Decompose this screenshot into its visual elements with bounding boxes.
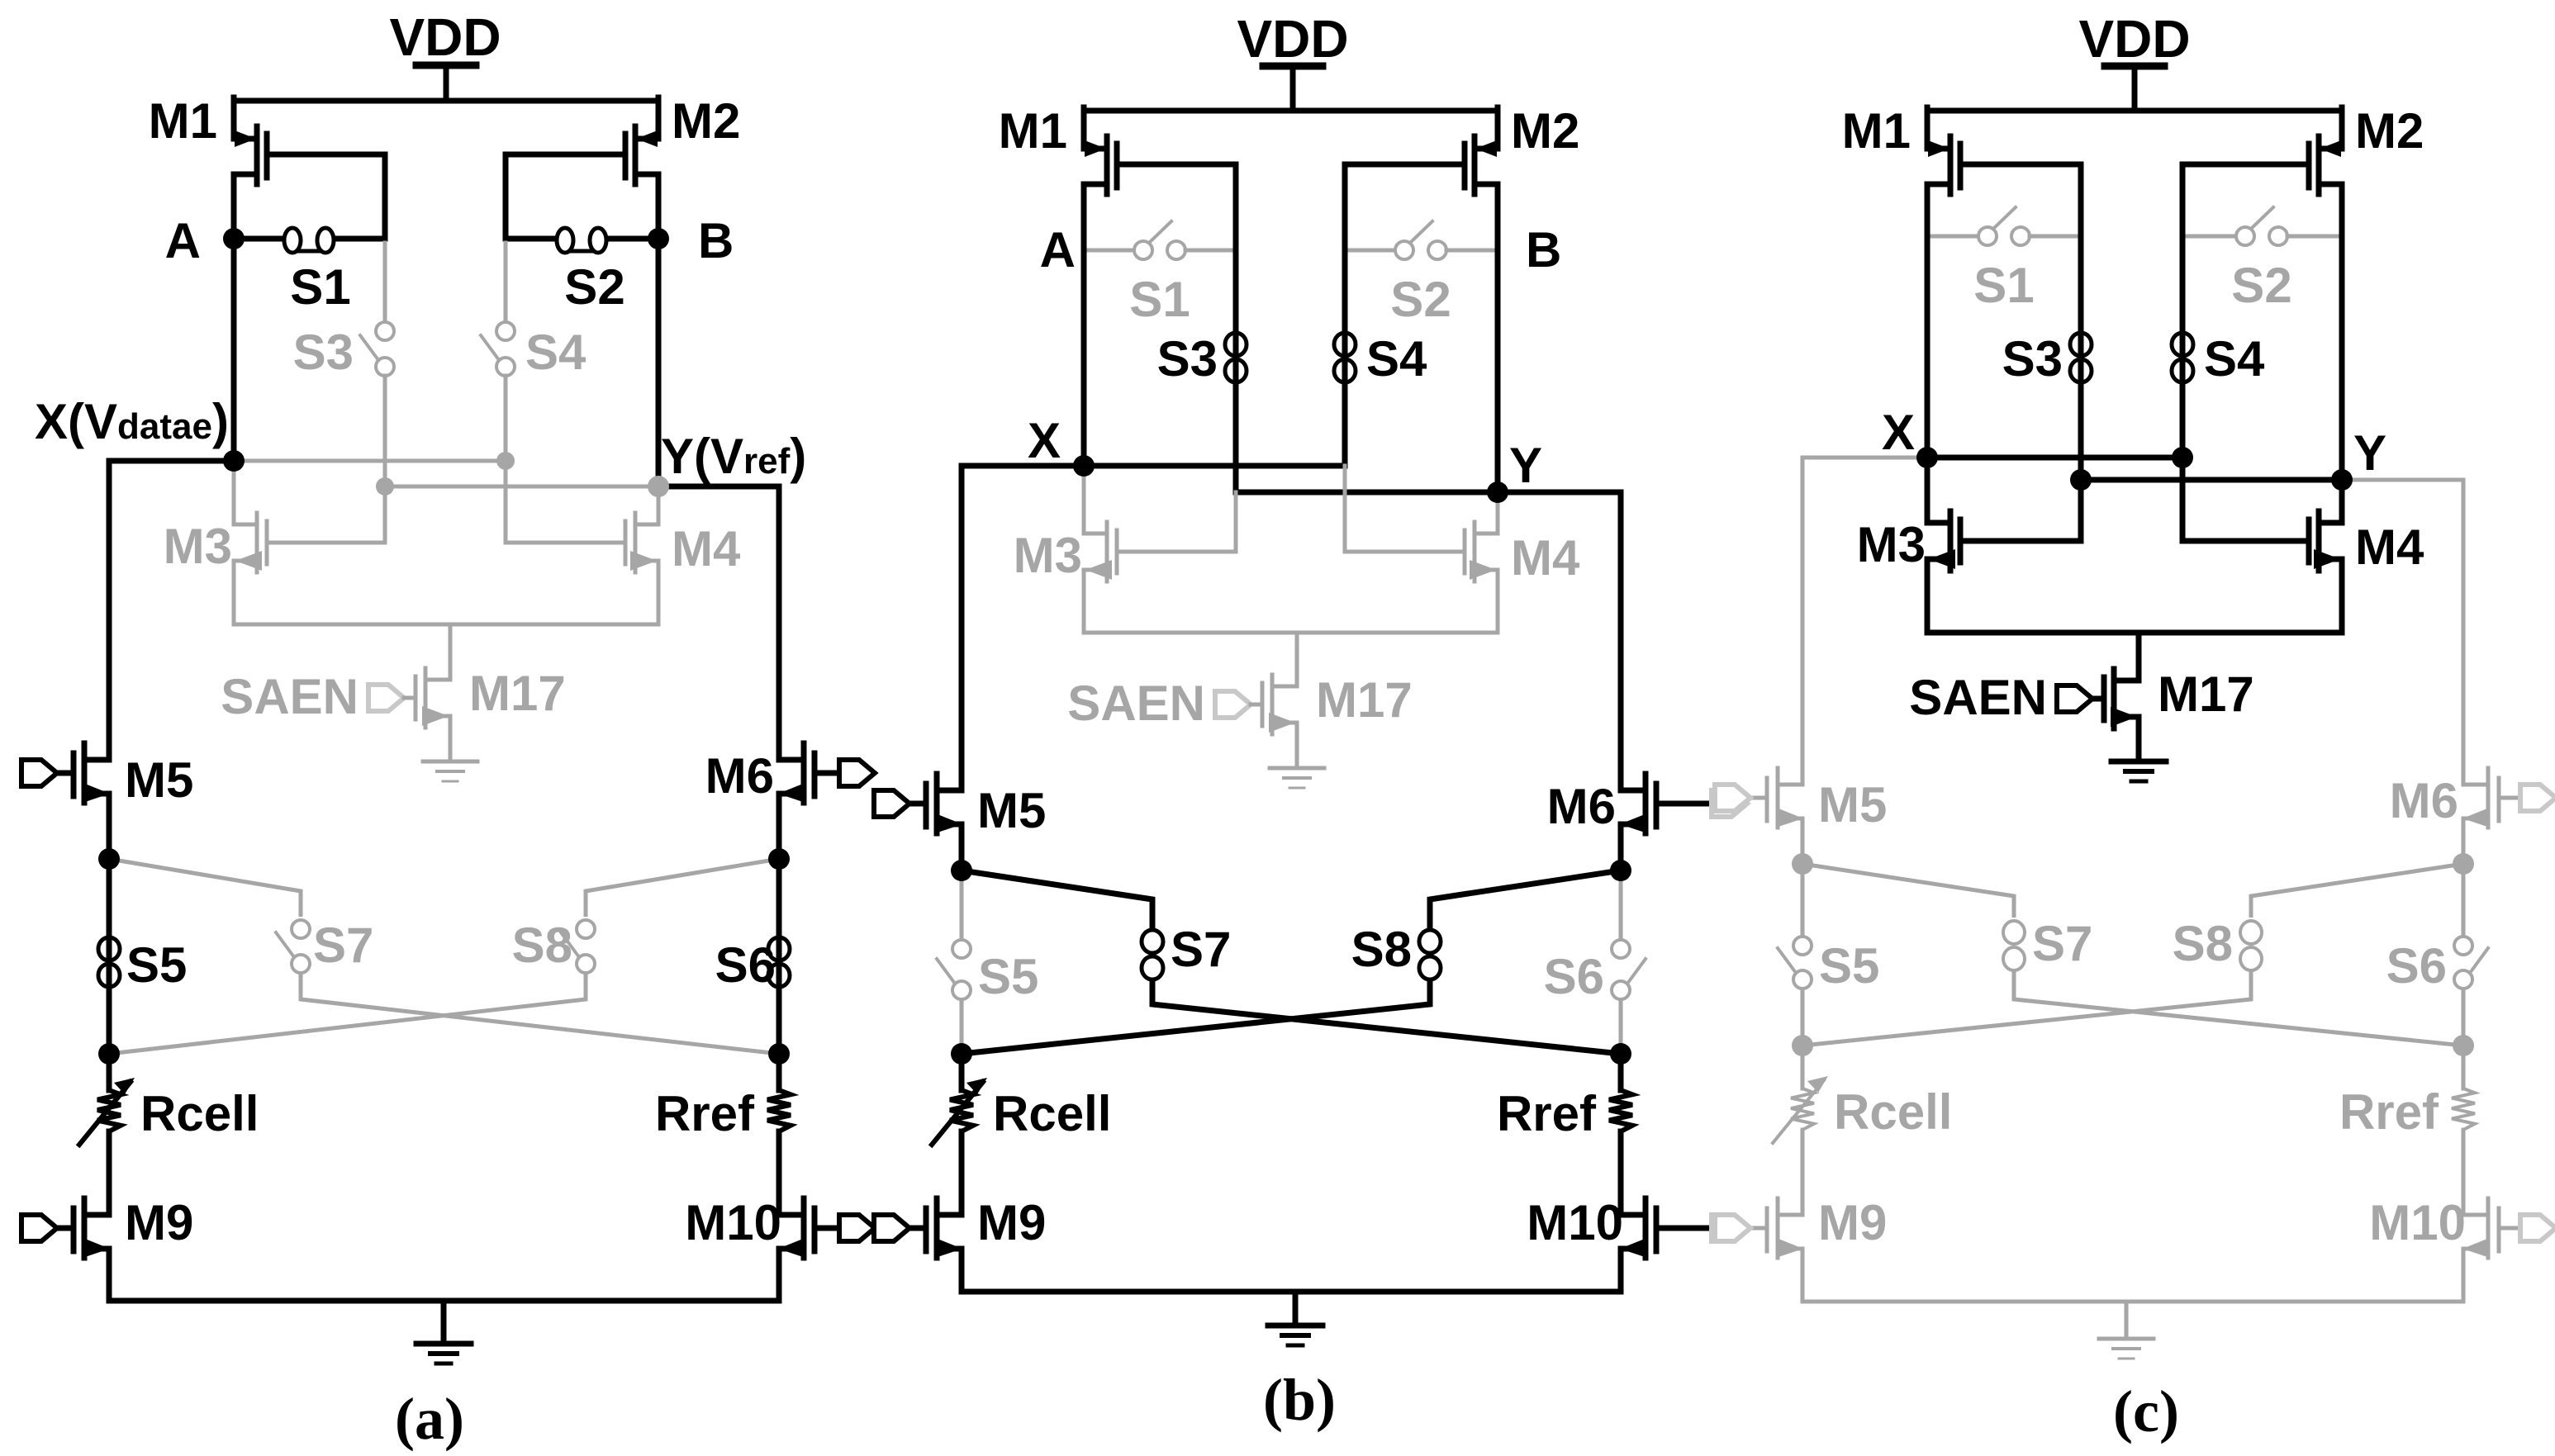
S7 label panel a bbox=[313, 918, 373, 973]
svg-text:M10: M10 bbox=[1527, 1195, 1623, 1250]
wire M6 drain to S6 panel a bbox=[776, 859, 782, 1054]
svg-text:S6: S6 bbox=[1544, 949, 1604, 1004]
wire S4 down panel b bbox=[1342, 250, 1348, 466]
svg-text:M5: M5 bbox=[125, 752, 193, 808]
switch S6 (closed) panel a bbox=[768, 937, 790, 987]
SAEN port panel c bbox=[2057, 685, 2104, 712]
svg-text:Rcell: Rcell bbox=[1834, 1084, 1952, 1140]
wire S4 to node X panel a bbox=[504, 376, 508, 461]
wire node Y right panel a bbox=[658, 486, 779, 760]
svg-text:SAEN: SAEN bbox=[1067, 676, 1205, 731]
M10 label panel b bbox=[1527, 1195, 1623, 1250]
wire node X left panel b bbox=[962, 466, 1084, 790]
SAEN label panel c bbox=[1909, 670, 2047, 725]
M6 label panel c bbox=[2390, 773, 2458, 828]
M3 label panel c bbox=[1857, 517, 1926, 572]
S4 label panel c bbox=[2204, 331, 2265, 387]
resistor Rref panel b bbox=[1609, 1054, 1632, 1215]
svg-text:X: X bbox=[1028, 413, 1061, 468]
wire VDD rail panel c bbox=[1927, 108, 2342, 114]
svg-text:S4: S4 bbox=[525, 325, 587, 380]
wire M4 gate riser panel b bbox=[1343, 466, 1347, 552]
S7 label panel b bbox=[1171, 922, 1231, 977]
wire M3-M4 common rail panel c bbox=[1927, 630, 2342, 636]
svg-text:S3: S3 bbox=[293, 325, 354, 380]
node X panel c bbox=[1916, 447, 1938, 468]
junction left resistor node panel c bbox=[1792, 1035, 1813, 1056]
M2 label panel b bbox=[1511, 103, 1579, 159]
svg-text:Rref: Rref bbox=[2339, 1084, 2439, 1140]
Y label panel c bbox=[2353, 425, 2386, 481]
SAEN port panel a bbox=[368, 685, 416, 711]
svg-text:Y: Y bbox=[2353, 425, 2386, 481]
panel label (c) bbox=[2113, 1378, 2179, 1444]
Rcell label panel a bbox=[140, 1086, 259, 1141]
junction right drain node panel b bbox=[1610, 860, 1631, 881]
node X panel b bbox=[1073, 455, 1095, 477]
S3 label panel b bbox=[1157, 331, 1218, 387]
svg-text:S5: S5 bbox=[1819, 938, 1879, 994]
junction right drain node panel c bbox=[2453, 853, 2474, 875]
transistor M3 panel a bbox=[234, 461, 385, 624]
transistor M2 panel c bbox=[2182, 107, 2342, 236]
S1 label panel b bbox=[1129, 272, 1190, 327]
wire node X right panel a bbox=[234, 459, 506, 463]
svg-text:M4: M4 bbox=[672, 521, 741, 576]
Rcell label panel b bbox=[993, 1086, 1111, 1141]
S8 label panel c bbox=[2173, 916, 2233, 971]
junction left drain node panel c bbox=[1792, 853, 1813, 875]
wire M2 gate to S2 panel b bbox=[1342, 164, 1348, 250]
svg-text:M10: M10 bbox=[2369, 1195, 2466, 1250]
svg-text:M6: M6 bbox=[1547, 779, 1616, 834]
wire M5 drain to S5 panel b bbox=[960, 870, 964, 1054]
junction X to S4 panel c bbox=[2172, 447, 2193, 468]
wire M2 gate to S2 panel a bbox=[503, 154, 509, 239]
M17 label panel a bbox=[469, 666, 566, 721]
transistor M2 panel a bbox=[506, 97, 658, 239]
SAEN label panel a bbox=[221, 669, 359, 724]
M6 gate port panel a bbox=[839, 760, 875, 786]
junction left resistor node panel b bbox=[951, 1043, 972, 1065]
resistor Rcell panel c bbox=[1773, 1046, 1828, 1215]
transistor M9 panel a bbox=[49, 1198, 110, 1301]
svg-text:M3: M3 bbox=[164, 519, 232, 574]
M10 gate port panel a bbox=[839, 1215, 875, 1241]
S2 label panel b bbox=[1390, 272, 1451, 327]
svg-text:S6: S6 bbox=[2386, 938, 2447, 994]
S1 label panel c bbox=[1973, 258, 2034, 313]
wire S2 to S4 panel a bbox=[504, 243, 508, 322]
switch S1 (open) panel c bbox=[1927, 207, 2081, 245]
svg-text:S1: S1 bbox=[1129, 272, 1190, 327]
junction right drain node panel a bbox=[768, 848, 790, 870]
wire node A to node X panel b bbox=[1081, 250, 1087, 466]
svg-text:Rcell: Rcell bbox=[993, 1086, 1111, 1141]
M9 gate port panel b bbox=[874, 1215, 909, 1241]
wire bottom rail panel a bbox=[109, 1298, 779, 1304]
svg-text:S3: S3 bbox=[1157, 331, 1218, 387]
transistor M3 panel b bbox=[1084, 466, 1236, 633]
X(Vdatae) label panel a bbox=[35, 394, 229, 449]
wire node X left panel c bbox=[1802, 458, 1927, 785]
wire node X left panel a bbox=[109, 461, 234, 760]
M10 gate port panel b bbox=[1712, 1215, 1747, 1241]
M5 gate port panel a bbox=[21, 760, 57, 786]
M5 gate port panel c bbox=[1715, 785, 1750, 811]
wire node Y panel a bbox=[385, 485, 658, 489]
svg-text:M17: M17 bbox=[2158, 666, 2254, 722]
wire node Y right panel b bbox=[1498, 492, 1621, 790]
M9 label panel b bbox=[977, 1195, 1046, 1250]
wire M3 gate riser panel c bbox=[2078, 480, 2084, 541]
wire S8 to left branch panel b bbox=[962, 978, 1430, 1054]
wire M4 gate riser panel a bbox=[504, 461, 508, 543]
transistor M5 panel b bbox=[901, 774, 962, 870]
ground below M17 panel b bbox=[1270, 768, 1324, 788]
transistor M10 panel b bbox=[1620, 1198, 1713, 1292]
svg-text:(a): (a) bbox=[395, 1386, 464, 1452]
S4 label panel b bbox=[1366, 331, 1427, 387]
wire M5 drain to S5 panel a bbox=[107, 859, 112, 1054]
svg-text:X: X bbox=[1882, 405, 1915, 460]
svg-text:S8: S8 bbox=[1351, 922, 1412, 977]
switch S6 (open) panel c bbox=[2454, 937, 2488, 989]
M17 label panel b bbox=[1316, 672, 1413, 728]
M9 gate port panel a bbox=[21, 1215, 57, 1241]
wire M3 gate riser panel a bbox=[383, 486, 387, 543]
svg-text:A: A bbox=[165, 213, 201, 268]
svg-text:Rref: Rref bbox=[655, 1086, 755, 1141]
S5 label panel a bbox=[126, 937, 187, 993]
node A panel a bbox=[165, 213, 245, 268]
panel label (b) bbox=[1263, 1367, 1336, 1433]
svg-text:A: A bbox=[1040, 222, 1076, 277]
resistor Rref panel c bbox=[2452, 1046, 2475, 1215]
switch S4 (closed) panel b bbox=[1334, 333, 1356, 382]
M2 label panel a bbox=[672, 93, 740, 149]
svg-text:B: B bbox=[698, 213, 734, 268]
SAEN label panel b bbox=[1067, 676, 1205, 731]
wire M2 drain to Y panel c bbox=[2339, 236, 2345, 480]
wire to S8 panel c bbox=[2251, 864, 2463, 918]
junction left drain node panel a bbox=[98, 848, 120, 870]
svg-text:M17: M17 bbox=[469, 666, 566, 721]
svg-text:M4: M4 bbox=[2355, 519, 2424, 575]
junction X to S4 panel a bbox=[496, 452, 515, 470]
M9 label panel c bbox=[1818, 1195, 1887, 1250]
switch S1 (closed) panel a bbox=[234, 228, 385, 253]
Rref label panel c bbox=[2339, 1084, 2439, 1140]
transistor M1 panel c bbox=[1927, 107, 2081, 236]
S6 label panel c bbox=[2386, 938, 2447, 994]
transistor M9 panel c bbox=[1742, 1198, 1803, 1302]
S2 label panel c bbox=[2231, 258, 2291, 313]
wire bottom rail panel b bbox=[962, 1289, 1621, 1295]
node Y panel b bbox=[1487, 481, 1508, 503]
switch S3 (open) panel a bbox=[360, 322, 394, 376]
svg-text:S7: S7 bbox=[2032, 916, 2092, 971]
wire S3 to node Y panel a bbox=[383, 376, 387, 486]
svg-text:Rref: Rref bbox=[1497, 1086, 1597, 1141]
M10 gate port panel c bbox=[2520, 1215, 2555, 1241]
ground bottom panel b bbox=[1268, 1292, 1323, 1345]
M1 label panel a bbox=[149, 93, 217, 149]
switch S4 (open) panel a bbox=[481, 322, 515, 376]
wire to S7 panel c bbox=[1802, 864, 2014, 918]
VDD supply symbol panel b bbox=[1263, 66, 1323, 111]
svg-text:SAEN: SAEN bbox=[221, 669, 359, 724]
S8 label panel b bbox=[1351, 922, 1412, 977]
M3 label panel a bbox=[164, 519, 232, 574]
X label panel b bbox=[1028, 413, 1061, 468]
Rref label panel a bbox=[655, 1086, 755, 1141]
resistor Rcell panel b bbox=[932, 1054, 987, 1215]
switch S2 (open) panel c bbox=[2182, 207, 2342, 245]
transistor M5 panel a bbox=[49, 743, 110, 859]
svg-text:M10: M10 bbox=[685, 1195, 781, 1250]
wire node A to node X panel a bbox=[231, 239, 237, 461]
M3 label panel b bbox=[1014, 528, 1082, 583]
transistor M6 panel c bbox=[2462, 768, 2522, 864]
svg-text:M1: M1 bbox=[149, 93, 217, 149]
svg-text:S7: S7 bbox=[313, 918, 373, 973]
node Y panel c bbox=[2331, 469, 2353, 491]
wire M4 gate riser panel c bbox=[2180, 458, 2186, 541]
switch S5 (closed) panel a bbox=[98, 937, 120, 987]
switch S6 (open) panel b bbox=[1612, 940, 1646, 999]
switch S7 (open) panel a bbox=[276, 920, 310, 973]
wire S7 to right branch panel c bbox=[2014, 969, 2463, 1046]
transistor M1 panel b bbox=[1084, 107, 1236, 250]
junction left resistor node panel a bbox=[98, 1043, 120, 1065]
VDD supply symbol panel a bbox=[416, 65, 476, 101]
wire node Y right panel c bbox=[2342, 480, 2463, 785]
svg-text:M9: M9 bbox=[977, 1195, 1046, 1250]
svg-text:M2: M2 bbox=[672, 93, 740, 149]
svg-text:M1: M1 bbox=[999, 103, 1067, 159]
transistor M17 panel a bbox=[416, 624, 450, 761]
wire M3 gate riser panel b bbox=[1234, 492, 1238, 552]
wire S7 to right branch panel b bbox=[1152, 978, 1621, 1054]
transistor M4 panel b bbox=[1345, 492, 1498, 633]
M6 gate port panel c bbox=[2520, 785, 2555, 811]
node X panel a bbox=[223, 450, 245, 472]
wire S3 down panel b bbox=[1236, 490, 1498, 496]
transistor M5 panel c bbox=[1742, 768, 1803, 864]
M9 label panel a bbox=[125, 1195, 193, 1250]
svg-text:S8: S8 bbox=[512, 918, 572, 973]
svg-text:M9: M9 bbox=[1818, 1195, 1887, 1250]
transistor M1 panel a bbox=[234, 97, 385, 239]
svg-text:Rcell: Rcell bbox=[140, 1086, 259, 1141]
S5 label panel b bbox=[978, 949, 1038, 1004]
svg-text:M5: M5 bbox=[1818, 777, 1887, 832]
resistor Rcell panel a bbox=[79, 1054, 135, 1215]
M6 label panel b bbox=[1547, 779, 1616, 834]
svg-text:M6: M6 bbox=[2390, 773, 2458, 828]
junction Y to S3 panel a bbox=[376, 477, 394, 496]
node Y panel a bbox=[648, 476, 669, 497]
M1 label panel c bbox=[1842, 103, 1911, 159]
svg-text:M3: M3 bbox=[1014, 528, 1082, 583]
svg-text:VDD: VDD bbox=[1237, 9, 1348, 69]
svg-text:B: B bbox=[1526, 222, 1561, 277]
node A panel b bbox=[1040, 222, 1076, 277]
M5 label panel b bbox=[977, 783, 1046, 838]
S1 label panel a bbox=[290, 259, 350, 315]
svg-text:(b): (b) bbox=[1263, 1367, 1336, 1433]
svg-text:S2: S2 bbox=[1390, 272, 1451, 327]
switch S2 (open) panel b bbox=[1345, 221, 1498, 259]
switch S5 (open) panel b bbox=[937, 940, 971, 999]
switch S3 (closed) panel c bbox=[2070, 333, 2092, 382]
svg-text:S8: S8 bbox=[2173, 916, 2233, 971]
svg-text:VDD: VDD bbox=[389, 7, 501, 67]
switch S7 (closed) panel b bbox=[1142, 930, 1163, 979]
switch S8 (closed) panel b bbox=[1419, 930, 1441, 979]
VDD label panel a bbox=[389, 7, 501, 67]
svg-text:S5: S5 bbox=[978, 949, 1038, 1004]
wire node X right panel b bbox=[1084, 463, 1345, 469]
wire S4 down panel c bbox=[2180, 236, 2186, 458]
ground below M17 panel a bbox=[423, 761, 477, 781]
wire M3-M4 common rail panel a bbox=[234, 623, 658, 627]
svg-text:M5: M5 bbox=[977, 783, 1046, 838]
node B panel b bbox=[1526, 222, 1561, 277]
svg-text:M4: M4 bbox=[1511, 530, 1580, 586]
junction right resistor node panel c bbox=[2453, 1035, 2474, 1056]
svg-text:M2: M2 bbox=[1511, 103, 1579, 159]
S2 label panel a bbox=[564, 259, 625, 315]
switch S7 (closed) panel c bbox=[2003, 921, 2025, 970]
wire M2 drain to Y panel b bbox=[1495, 250, 1501, 492]
switch S5 (open) panel c bbox=[1778, 937, 1812, 989]
S3 label panel c bbox=[2002, 331, 2063, 387]
wire M1 gate to S1 panel b bbox=[1233, 164, 1239, 250]
M4 label panel a bbox=[672, 521, 741, 576]
wire to S7 panel b bbox=[962, 870, 1152, 929]
SAEN port panel b bbox=[1215, 691, 1262, 718]
X label panel c bbox=[1882, 405, 1915, 460]
wire S8 to left branch panel c bbox=[1802, 969, 2251, 1046]
svg-text:S2: S2 bbox=[2231, 258, 2291, 313]
wire M1 gate to S1 panel c bbox=[2078, 164, 2084, 236]
transistor M4 panel a bbox=[506, 486, 658, 624]
transistor M10 panel c bbox=[2462, 1198, 2522, 1302]
Y(Vref) label panel a bbox=[661, 429, 806, 484]
svg-text:M9: M9 bbox=[125, 1195, 193, 1250]
M5 label panel c bbox=[1818, 777, 1887, 832]
M1 label panel b bbox=[999, 103, 1067, 159]
S3 label panel a bbox=[293, 325, 354, 380]
svg-text:M2: M2 bbox=[2355, 103, 2424, 159]
M6 label panel a bbox=[705, 748, 774, 804]
svg-text:VDD: VDD bbox=[2078, 9, 2190, 69]
transistor M17 panel c bbox=[2104, 633, 2139, 761]
S7 label panel c bbox=[2032, 916, 2092, 971]
wire node Y panel b bbox=[0, 0, 1, 1]
wire M6 drain to S6 panel b bbox=[1619, 870, 1623, 1054]
svg-text:S1: S1 bbox=[1973, 258, 2034, 313]
svg-text:Y: Y bbox=[1509, 438, 1542, 493]
ground bottom panel c bbox=[2099, 1302, 2154, 1359]
M2 label panel c bbox=[2355, 103, 2424, 159]
wire S3 down panel c bbox=[2081, 477, 2342, 483]
ground below M17 panel c bbox=[2111, 761, 2166, 781]
M4 label panel b bbox=[1511, 530, 1580, 586]
panel label (a) bbox=[395, 1386, 464, 1452]
svg-text:SAEN: SAEN bbox=[1909, 670, 2047, 725]
svg-text:M1: M1 bbox=[1842, 103, 1911, 159]
switch S3 (closed) panel b bbox=[1225, 333, 1247, 382]
svg-text:S1: S1 bbox=[290, 259, 350, 315]
node B panel a bbox=[648, 213, 734, 268]
wire to S7 panel a bbox=[109, 859, 301, 917]
wire S7 to right branch panel a bbox=[301, 973, 779, 1054]
M6 gate port panel b bbox=[1712, 790, 1747, 817]
S5 label panel c bbox=[1819, 938, 1879, 994]
wire M6 drain to S6 panel c bbox=[2462, 864, 2466, 1046]
svg-text:S5: S5 bbox=[126, 937, 187, 993]
junction left drain node panel b bbox=[951, 860, 972, 881]
M9 gate port panel c bbox=[1715, 1215, 1750, 1241]
svg-text:S6: S6 bbox=[715, 937, 776, 993]
transistor M2 panel b bbox=[1345, 107, 1498, 250]
VDD supply symbol panel c bbox=[2105, 66, 2164, 111]
wire VDD rail panel a bbox=[234, 98, 658, 104]
wire S1 to S3 panel b bbox=[1233, 250, 1239, 492]
M4 label panel c bbox=[2355, 519, 2424, 575]
ground bottom panel a bbox=[416, 1301, 471, 1364]
wire to S8 panel b bbox=[1430, 870, 1621, 929]
S8 label panel a bbox=[512, 918, 572, 973]
wire S1 to S3 panel a bbox=[383, 243, 387, 322]
wire node A to node X panel c bbox=[1925, 236, 1930, 458]
transistor M17 panel b bbox=[1262, 633, 1297, 768]
junction Y to S3 panel c bbox=[2070, 469, 2092, 491]
VDD label panel b bbox=[1237, 9, 1348, 69]
transistor M6 panel a bbox=[778, 743, 841, 859]
S4 label panel a bbox=[525, 325, 587, 380]
VDD label panel c bbox=[2078, 9, 2190, 69]
Rcell label panel c bbox=[1834, 1084, 1952, 1140]
svg-text:S7: S7 bbox=[1171, 922, 1231, 977]
svg-text:S2: S2 bbox=[564, 259, 625, 315]
junction right resistor node panel b bbox=[1610, 1043, 1631, 1065]
transistor M6 panel b bbox=[1620, 774, 1713, 870]
svg-text:S4: S4 bbox=[1366, 331, 1427, 387]
wire M2 drain to Y panel a bbox=[656, 239, 662, 486]
svg-text:(c): (c) bbox=[2113, 1378, 2179, 1444]
wire M3-M4 common rail panel b bbox=[1084, 631, 1498, 635]
switch S2 (closed) panel a bbox=[506, 228, 658, 253]
transistor M9 panel b bbox=[901, 1198, 962, 1292]
resistor Rref panel a bbox=[767, 1054, 791, 1215]
M5 label panel a bbox=[125, 752, 193, 808]
wire VDD rail panel b bbox=[1084, 108, 1498, 114]
S6 label panel b bbox=[1544, 949, 1604, 1004]
wire bottom rail panel c bbox=[1802, 1300, 2463, 1304]
wire S1 to S3 panel c bbox=[2078, 236, 2084, 480]
M10 label panel a bbox=[685, 1195, 781, 1250]
svg-text:S4: S4 bbox=[2204, 331, 2265, 387]
wire M2 gate to S2 panel c bbox=[2180, 164, 2186, 236]
Y label panel b bbox=[1509, 438, 1542, 493]
wire to S8 panel a bbox=[586, 859, 779, 917]
switch S1 (open) panel b bbox=[1084, 221, 1236, 259]
wire S8 to left branch panel a bbox=[109, 973, 586, 1054]
